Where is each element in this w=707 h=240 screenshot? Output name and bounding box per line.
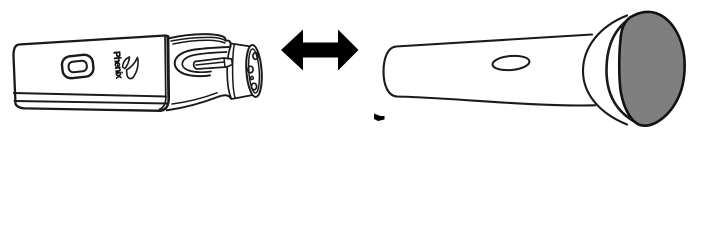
xlr face inner ellipse	[247, 49, 260, 94]
xlr lever mid line	[196, 62, 224, 65]
xlr lever end face line	[224, 58, 225, 67]
transmitter body outline	[13, 36, 168, 111]
xlr deck second inner line	[173, 40, 225, 44]
xlr latch horseshoe inner	[182, 52, 226, 72]
xlr latch lever	[194, 58, 233, 69]
transmitter right end double edge	[160, 36, 166, 110]
xlr pin hole bottom	[251, 83, 256, 90]
xlr housing top inner line	[171, 37, 226, 41]
xlr barrel bottom edge	[232, 95, 252, 99]
xlr latch horseshoe outer	[175, 47, 229, 76]
mic switch ellipse	[492, 54, 530, 71]
mic grille ball	[619, 12, 684, 126]
xlr pin hole top	[253, 53, 258, 60]
xlr cylinder step	[233, 44, 235, 98]
small pointer mark	[374, 114, 385, 122]
double arrow	[281, 30, 359, 71]
transmitter bottom chamfer line	[15, 101, 168, 104]
xlr face outer ellipse	[245, 45, 264, 98]
xlr cylinder ring left edge	[227, 46, 231, 99]
mic collar band line 1	[583, 16, 627, 125]
xlr notch hole	[251, 76, 254, 79]
xlr pin hole mid	[248, 66, 253, 73]
xlr housing top profile	[168, 34, 231, 46]
button outer squircle	[61, 54, 94, 79]
mic body fill	[384, 35, 600, 108]
mic body outline	[384, 35, 596, 106]
xlr bottom sweep inner	[172, 93, 217, 104]
brand logo petals	[123, 57, 130, 69]
button inner opening	[68, 60, 87, 72]
xlr barrel top edge	[231, 44, 251, 47]
transmitter bottom face line upper	[14, 93, 166, 97]
mic collar band line 2	[607, 14, 639, 124]
xlr bottom sweep outer	[167, 95, 231, 110]
